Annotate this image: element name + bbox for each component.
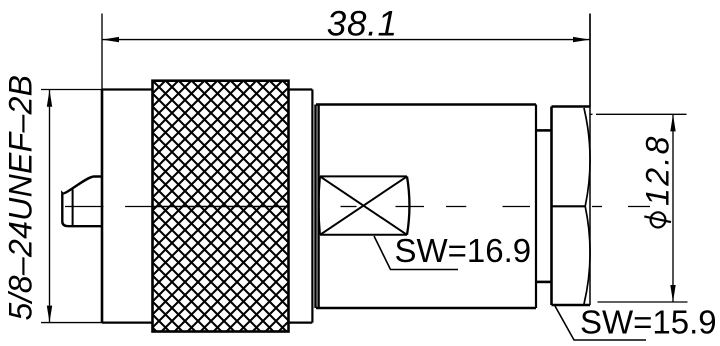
svg-text:5/8–24UNEF–2B: 5/8–24UNEF–2B xyxy=(3,75,39,321)
svg-text:SW=16.9: SW=16.9 xyxy=(395,232,532,269)
svg-text:12.8: 12.8 xyxy=(640,134,676,206)
svg-text:38.1: 38.1 xyxy=(327,5,398,44)
svg-text:SW=15.9: SW=15.9 xyxy=(580,304,717,341)
